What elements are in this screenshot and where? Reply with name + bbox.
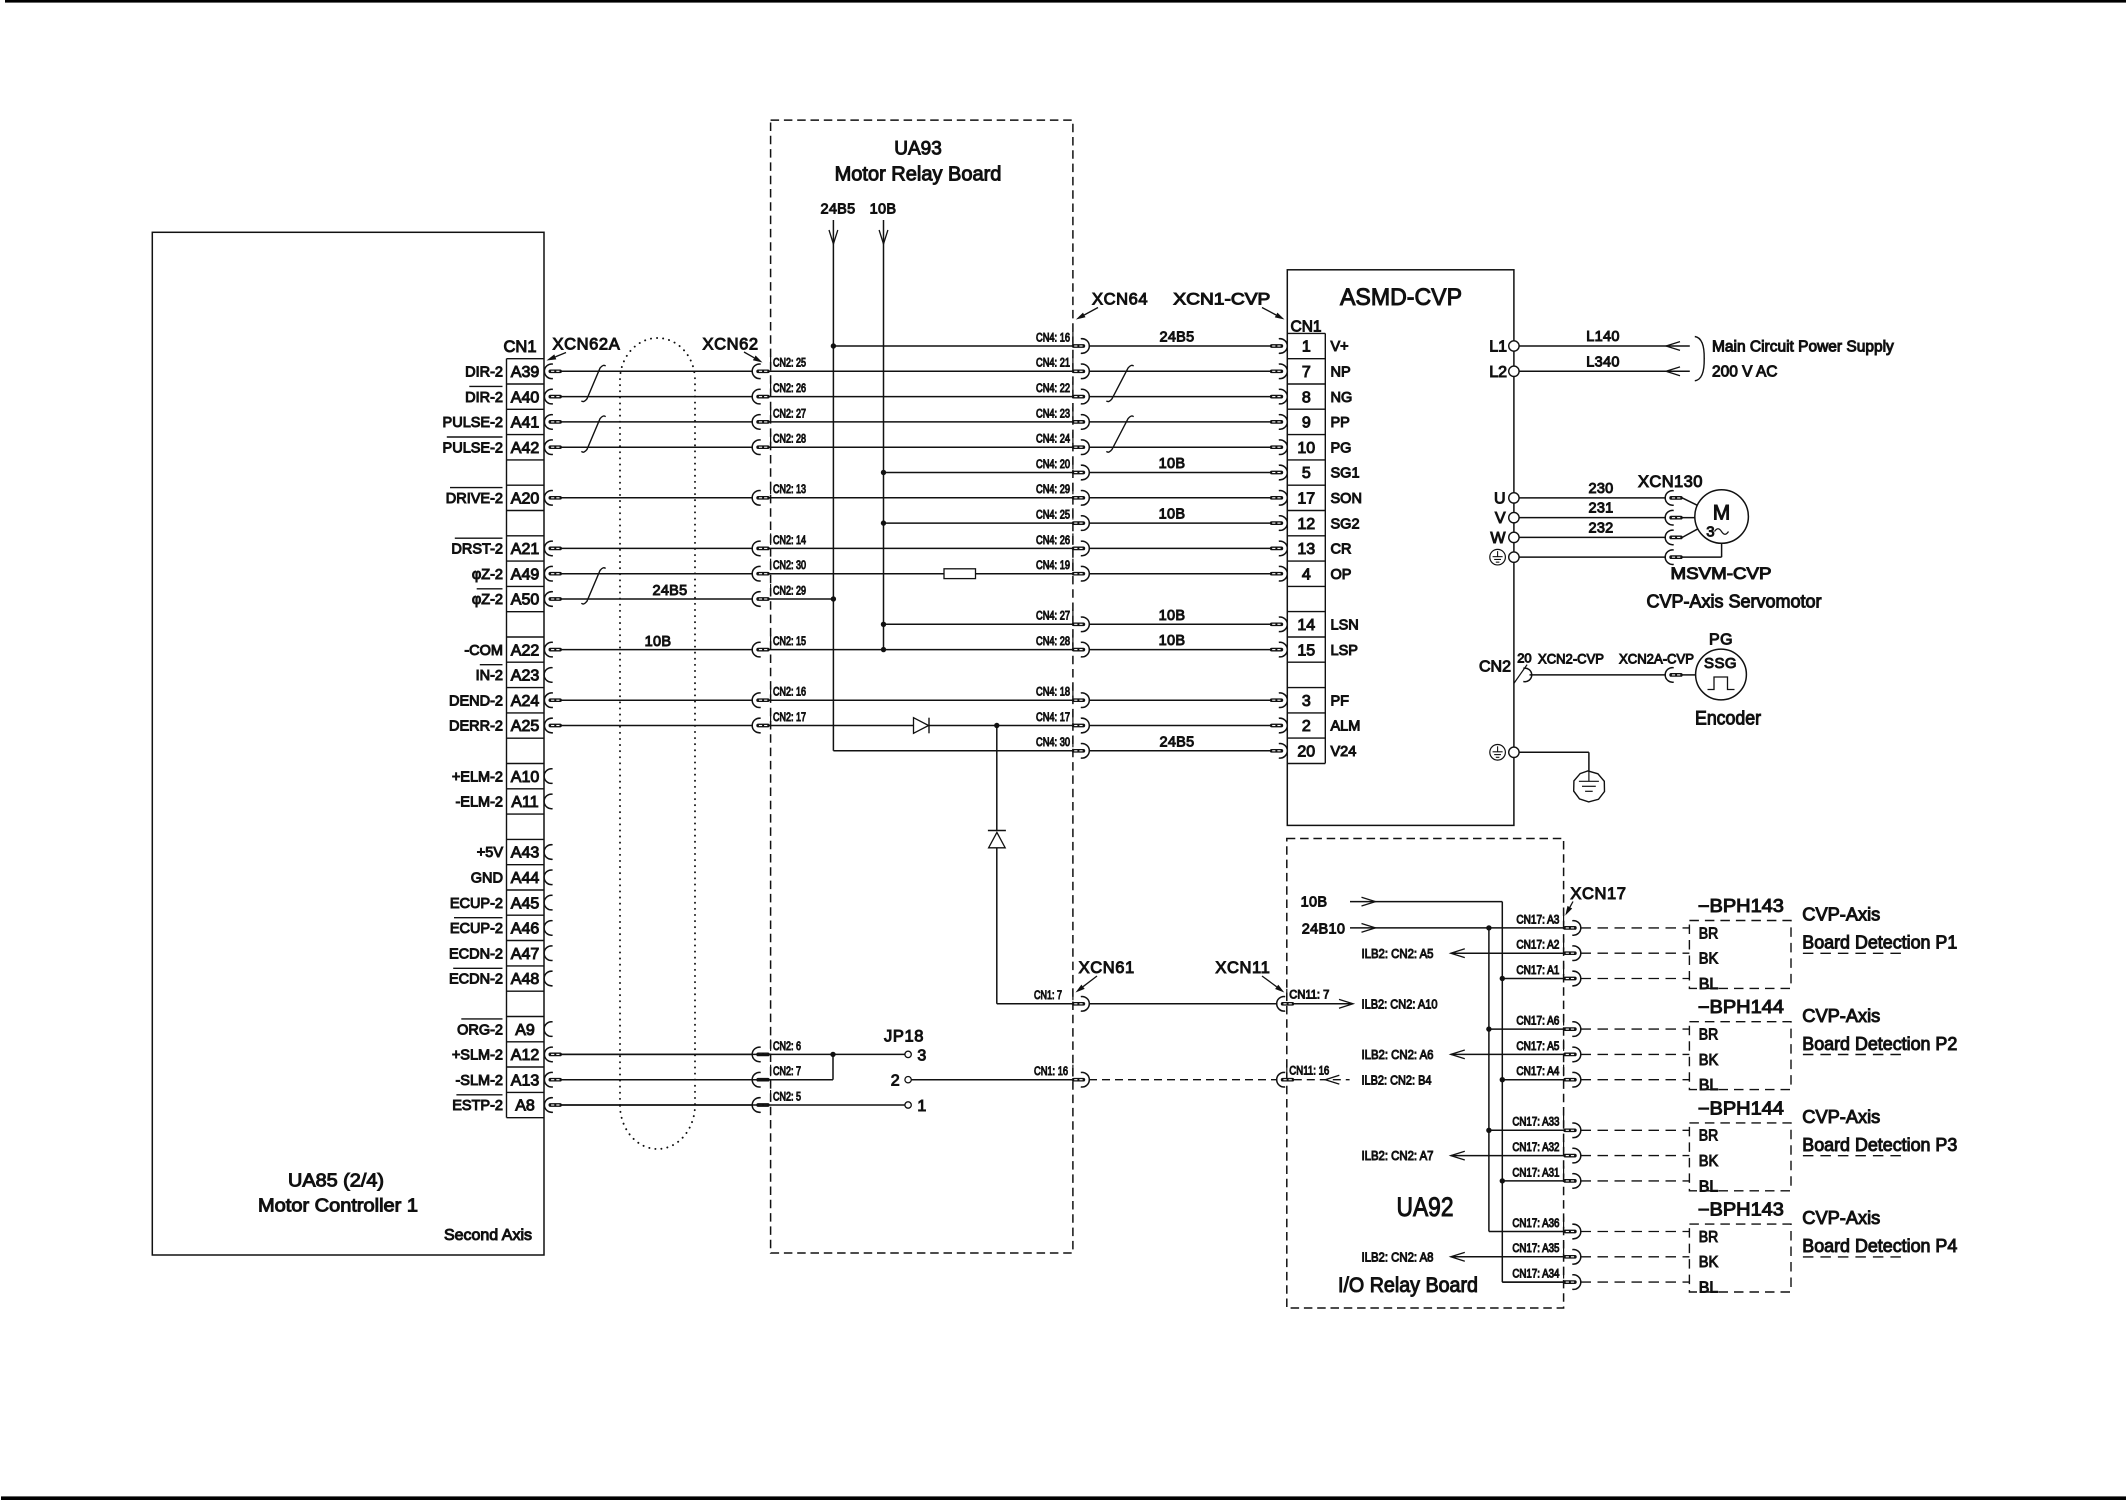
svg-text:2: 2 [1302,718,1311,735]
wire CN1:16 out (from JP18 pin 2) [911,1079,1072,1081]
svg-text:A40: A40 [511,389,540,406]
wire CN4: 24 to ASMD row 3 [1089,446,1270,448]
connector shell XCN62 CN2:16 [752,693,770,708]
svg-text:CN11: 16: CN11: 16 [1289,1065,1329,1077]
svg-text:LSP: LSP [1331,643,1358,659]
svg-text:PULSE-2: PULSE-2 [443,440,503,456]
CN2 20-way slash [1514,665,1527,684]
arrow XCN64 [1084,308,1098,316]
connector shell CN1:A10 [544,769,553,784]
svg-text:Second Axis: Second Axis [444,1227,532,1244]
svg-text:CVP-Axis: CVP-Axis [1802,905,1880,925]
svg-text:24B5: 24B5 [820,202,855,218]
label tick [1072,407,1074,419]
sensor board &#8722;BPH143 (P1) dashed box [1689,921,1791,989]
junction 10B/LSP [881,647,886,652]
connector shell CN1:A44 [544,870,553,885]
connector shell XCN17 A5 [1563,1047,1581,1062]
svg-text:XCN130: XCN130 [1638,473,1703,491]
svg-text:BR: BR [1699,925,1719,942]
svg-text:ESTP-2: ESTP-2 [452,1098,503,1114]
connector shell XCN17 A31 [1563,1174,1581,1189]
svg-text:A42: A42 [511,440,540,457]
label tick [1072,635,1074,647]
wire CN1:7 to CN11:7 [1089,1003,1277,1005]
svg-text:Encoder: Encoder [1695,709,1762,730]
connector shell XCN62 CN2:17 [752,718,770,733]
label tick [1072,736,1074,748]
svg-text:−BPH144: −BPH144 [1698,1098,1784,1118]
wire L340 [1519,370,1690,372]
svg-text:ILB2: CN2: A6: ILB2: CN2: A6 [1362,1047,1434,1062]
svg-text:XCN11: XCN11 [1215,959,1270,977]
connector shell XCN64 CN4: 16 [1072,339,1090,354]
svg-text:5: 5 [1302,465,1311,482]
wire W phase 232 [1519,536,1666,538]
svg-text:CN4: 28: CN4: 28 [1036,636,1070,648]
svg-text:17: 17 [1297,491,1315,508]
svg-text:CN2: 6: CN2: 6 [773,1041,801,1053]
earth ground electrode (circled) [1574,771,1605,802]
svg-text:V24: V24 [1331,744,1357,760]
svg-text:CN2: 15: CN2: 15 [773,636,806,648]
svg-text:I/O Relay Board: I/O Relay Board [1338,1274,1478,1297]
svg-text:1: 1 [917,1098,926,1115]
label tick [1072,609,1074,621]
label tick [1072,685,1074,697]
connector shell XCN62 CN2:30 [752,566,770,581]
10B bus elbow wire to A34 [1502,1281,1564,1283]
twisted-pair mark rows 2/3 [581,416,605,452]
net 10B feed arrow [883,220,885,244]
wire V phase 231 [1519,517,1666,519]
connector shell CN1:A25 [544,718,562,733]
connector shell CN1:A48 [544,971,553,986]
terminal PE (drive output) [1509,552,1519,562]
svg-text:φZ-2: φZ-2 [472,567,503,583]
junction 10B/A1 [1500,976,1505,981]
wire CN4: 24 row 3 [769,446,1072,448]
svg-text:CN17: A35: CN17: A35 [1512,1243,1559,1255]
connector shell XCN62 CN2:13 [752,491,770,506]
continuation dash under P1 text [1803,952,1905,954]
connector shell CN1:16 [1072,1072,1090,1087]
wire U into motor [1682,498,1701,507]
label tick [770,407,772,419]
junction 24B10/A6 [1486,1026,1491,1031]
svg-text:A20: A20 [511,491,540,508]
svg-text:XCN17: XCN17 [1570,885,1626,903]
label tick [770,685,772,697]
connector shell XCN17 A3 [1563,921,1581,936]
connector shell CN1:A40 [544,389,562,404]
svg-text:ILB2: CN2: A8: ILB2: CN2: A8 [1362,1249,1434,1264]
svg-text:BK: BK [1699,1254,1719,1271]
diode D2 (vertical, cathode up) [988,830,1006,832]
wire CN1:A13 to XCN62 CN2:7 [562,1079,754,1081]
svg-text:CN2: 16: CN2: 16 [773,687,806,699]
connector shell XCN62 CN2:15 [752,642,770,657]
svg-text:NP: NP [1331,365,1351,381]
wire CN4: 29 to ASMD row 5 [1089,497,1270,499]
svg-text:BL: BL [1699,1077,1719,1094]
net 24B5 vertical bus [832,244,834,751]
svg-text:A49: A49 [511,566,540,583]
svg-text:Board Detection P2: Board Detection P2 [1802,1034,1957,1054]
connector shell CN1:A20 [544,491,562,506]
board UA92 I/O Relay Board (dashed) [1287,839,1564,1309]
svg-text:CN4: 17: CN4: 17 [1036,712,1070,724]
svg-text:A25: A25 [511,718,540,735]
wire CN17:A4 from 10B bus [1502,1079,1564,1081]
PE ground symbol (chassis) [1490,745,1506,761]
board UA93 Motor Relay Board (dashed) [771,120,1073,1253]
harness wire A4 (dashed) [1581,1079,1690,1081]
svg-text:PG: PG [1331,440,1352,456]
wire CN17:A31 from 10B bus [1502,1180,1564,1182]
overbar PULSE-2 [447,436,503,438]
connector shell XCN64 CN4: 19 [1072,566,1090,581]
overbar ORG-2 [461,1018,502,1020]
svg-text:−BPH143: −BPH143 [1698,1200,1784,1220]
connector shell XCN130 [1665,510,1683,525]
harness wire A3 (dashed) [1581,927,1690,929]
svg-text:CN4: 22: CN4: 22 [1036,383,1070,395]
svg-text:CN4: 20: CN4: 20 [1036,459,1070,471]
connector shell XCN1-CVP row 2 [1270,415,1288,430]
arrow XCN1-CVP [1262,308,1276,316]
svg-text:Motor Relay Board: Motor Relay Board [835,164,1002,186]
label tick [1072,508,1074,519]
harness wire A36 (dashed) [1581,1231,1690,1233]
arrow XCN17 [1570,902,1573,908]
connector shell XCN64 CN4: 22 [1072,389,1090,404]
connector shell XCN62 CN2:27 [752,415,770,430]
svg-text:8: 8 [1302,389,1311,406]
connector shell CN1:A24 [544,693,562,708]
continuation dash under P4 text [1803,1256,1905,1258]
svg-text:A10: A10 [511,769,540,786]
JP18 pin 3 terminal [905,1051,911,1057]
connector shell CN1:A22 [544,642,562,657]
wire to earth ground [1519,751,1589,753]
harness wire A35 (dashed) [1581,1256,1690,1258]
wire CN4: 17 to ASMD row 14 [1089,725,1270,727]
label tick [1072,711,1074,723]
sensor board &#8722;BPH144 (P2) dashed box [1689,1022,1791,1090]
svg-text:CN1: 16: CN1: 16 [1034,1066,1068,1078]
svg-text:CN4: 30: CN4: 30 [1036,737,1070,749]
wire A50 (CN2:29) to 24B5 bus [769,598,833,600]
svg-text:BL: BL [1699,1178,1719,1195]
svg-text:10B: 10B [645,634,672,650]
svg-text:A22: A22 [511,642,540,659]
svg-text:L1: L1 [1489,339,1507,356]
svg-text:1: 1 [1302,339,1311,356]
harness wire A31 (dashed) [1581,1180,1690,1182]
svg-text:A46: A46 [511,921,540,938]
svg-text:-COM: -COM [464,643,503,659]
svg-text:CN17: A1: CN17: A1 [1516,965,1559,977]
svg-text:JP18: JP18 [884,1028,924,1046]
connector shell XCN64 CN4: 25 [1072,516,1090,531]
label tick [770,635,772,647]
connector shell CN1:A43 [544,845,553,860]
connector shell XCN64 CN4: 21 [1072,364,1090,379]
svg-text:DRST-2: DRST-2 [451,542,503,558]
wire CN4: 29 row 5 [769,497,1072,499]
terminal PE (chassis) [1509,747,1519,757]
junction A12/A13 tie [830,1052,835,1057]
resistor R (OP line) [944,569,976,579]
svg-text:12: 12 [1297,516,1315,533]
label tick [1072,559,1074,571]
cable bundle (dotted oval) [620,338,695,1149]
svg-text:CN2: 28: CN2: 28 [773,434,806,446]
twisted-pair mark PP/PG [1106,416,1133,452]
svg-text:CN2: 30: CN2: 30 [773,560,806,572]
svg-text:10: 10 [1297,440,1315,457]
sensor board &#8722;BPH144 (P3) dashed box [1689,1123,1791,1191]
svg-text:XCN64: XCN64 [1092,291,1148,309]
harness wire A32 (dashed) [1581,1155,1690,1157]
svg-text:W: W [1490,530,1506,547]
motor M (CVP-axis servomotor) [1695,490,1749,544]
connector shell XCN2A-CVP [1665,668,1683,683]
wire CN4: 16 to ASMD row -1 [1089,345,1270,347]
svg-text:CN2: CN2 [1479,659,1511,676]
svg-text:A43: A43 [511,845,540,862]
svg-text:-SLM-2: -SLM-2 [455,1073,503,1089]
arrow XCN62 [744,352,754,358]
board ASMD-CVP servo drive outline [1287,270,1514,826]
wire CN17:A6 from 24B10 bus [1489,1028,1564,1030]
svg-text:CN17: A32: CN17: A32 [1512,1142,1559,1154]
svg-text:CN17: A2: CN17: A2 [1516,940,1559,952]
wire CN17:A1 from 10B bus [1502,978,1564,980]
connector shell XCN1-CVP row 8 [1270,566,1288,581]
junction 10B/A4 [1500,1077,1505,1082]
connector shell XCN17 A33 [1563,1123,1581,1138]
wire CN4: 22 to ASMD row 1 [1089,396,1270,398]
wire CN4: 20 row 4 [884,472,1073,474]
connector shell XCN1-CVP row 15 [1270,744,1288,759]
connector shell XCN64 CN4: 18 [1072,693,1090,708]
label tick [770,711,772,723]
junction 24B5/A50 [831,596,836,601]
overbar φZ-2 [477,588,503,590]
svg-text:A48: A48 [511,971,540,988]
junction 10B/SG1 [881,470,886,475]
svg-text:U: U [1494,490,1506,507]
connector shell XCN130 [1665,550,1683,565]
svg-text:10B: 10B [1159,633,1186,649]
svg-text:A21: A21 [511,541,540,558]
overbar IN-2 [480,664,503,666]
svg-text:20: 20 [1517,651,1531,666]
svg-text:NG: NG [1331,390,1353,406]
connector shell XCN64 CN4: 20 [1072,465,1090,480]
connector shell XCN1-CVP row 6 [1270,516,1288,531]
wire CN17:A5 to ILB2 [1451,1053,1564,1055]
wire CN4: 30 row 15 [833,750,1072,752]
svg-text:BK: BK [1699,1153,1719,1170]
connector shell XCN64 CN4: 26 [1072,541,1090,556]
overbar DRST-2 [455,537,503,539]
label tick [1072,533,1074,545]
svg-text:BR: BR [1699,1128,1719,1145]
svg-text:7: 7 [1302,364,1311,381]
svg-text:A44: A44 [511,870,540,887]
svg-text:ILB2: CN2: A5: ILB2: CN2: A5 [1362,946,1434,961]
wire A8 to JP18 pin 1 [562,1104,905,1106]
net 24B5 feed arrow [832,220,834,244]
svg-text:CN1: 7: CN1: 7 [1034,990,1062,1002]
svg-text:BL: BL [1699,976,1719,993]
wire CN1:A25 to XCN62 CN2:17 [562,725,754,727]
connector CN1 (ASMD) pin cell column [1287,333,1325,763]
svg-text:SSG: SSG [1704,655,1737,672]
svg-text:CN4: 19: CN4: 19 [1036,560,1070,572]
connector shell XCN17 A6 [1563,1022,1581,1037]
wire CN11:16 to ILB2 (dashed) [1294,1079,1350,1081]
wire CN17:A35 to ILB2 [1451,1256,1564,1258]
svg-text:-ELM-2: -ELM-2 [455,795,503,811]
svg-text:CVP-Axis: CVP-Axis [1802,1107,1880,1127]
overbar ESTP-2 [456,1094,502,1096]
wire CN1:A42 to XCN62 CN2:28 [562,446,754,448]
svg-text:CN17: A36: CN17: A36 [1512,1218,1559,1230]
connector shell CN1:A45 [544,895,553,910]
connector shell XCN1-CVP row 5 [1270,491,1288,506]
svg-text:BR: BR [1699,1027,1719,1044]
svg-text:CN2: 27: CN2: 27 [773,408,806,420]
svg-text:V+: V+ [1331,339,1349,355]
connector shell CN1:A8 [544,1098,562,1113]
svg-text:+5V: +5V [477,845,504,861]
wire CN1:7 out [997,1003,1073,1005]
connector shell XCN17 A35 [1563,1250,1581,1265]
svg-text:A39: A39 [511,364,540,381]
connector shell XCN64 CN4: 30 [1072,744,1090,759]
connector shell CN1:A13 [544,1072,562,1087]
svg-text:230: 230 [1588,481,1613,497]
junction 24B10/A3 [1486,925,1491,930]
svg-text:V: V [1495,510,1506,527]
wire CN4: 17 row 14 [769,725,913,727]
svg-text:DRIVE-2: DRIVE-2 [446,491,503,507]
connector shell XCN62 CN2:5 [752,1098,770,1113]
svg-text:CN4: 23: CN4: 23 [1036,408,1070,420]
connector shell XCN62 CN2:25 [752,364,770,379]
arrow XCN61 [1083,976,1097,987]
svg-text:A50: A50 [511,592,540,609]
wire CN1:A41 to XCN62 CN2:27 [562,421,754,423]
wire A12 to JP18 pin 3 [562,1053,905,1055]
svg-text:CVP-Axis Servomotor: CVP-Axis Servomotor [1646,592,1821,612]
svg-text:CN17: A34: CN17: A34 [1512,1269,1560,1281]
svg-text:Board Detection P3: Board Detection P3 [1802,1135,1957,1155]
net 10B vertical bus [883,244,885,650]
svg-text:CN4: 18: CN4: 18 [1036,687,1070,699]
svg-text:CN4: 29: CN4: 29 [1036,484,1070,496]
connector shell XCN1-CVP row 0 [1270,364,1288,379]
svg-text:CR: CR [1331,542,1352,558]
twisted-pair mark rows 8/9 [581,568,605,604]
svg-text:10B: 10B [1159,608,1186,624]
svg-text:24B10: 24B10 [1302,922,1345,938]
connector shell XCN11 CN11:7 [1277,997,1295,1012]
wire CN17:A36 from 24B10 bus [1489,1231,1564,1233]
svg-text:M: M [1713,502,1731,525]
svg-text:CN2: 14: CN2: 14 [773,535,806,547]
svg-text:MSVM-CVP: MSVM-CVP [1671,565,1772,583]
svg-text:CN17: A4: CN17: A4 [1516,1066,1560,1078]
wire CN4: 27 row 10 [884,623,1073,625]
svg-text:24B5: 24B5 [1159,330,1194,346]
junction 24B5/CN4:16 [831,343,836,348]
svg-text:15: 15 [1297,642,1315,659]
connector shell XCN1-CVP row 7 [1270,541,1288,556]
sensor board &#8722;BPH143 (P4) dashed box [1689,1224,1791,1292]
connector shell CN1:A50 [544,592,562,607]
twisted-pair mark rows 0/1 [581,365,605,401]
connector shell XCN17 A4 [1563,1072,1581,1087]
svg-text:Motor Controller 1: Motor Controller 1 [258,1195,418,1216]
connector shell XCN17 A2 [1563,946,1581,961]
harness wire A33 (dashed) [1581,1129,1690,1131]
label tick [1072,432,1074,444]
svg-text:A9: A9 [515,1022,535,1039]
diode D1 (ALM line) [914,718,929,734]
svg-text:10B: 10B [1159,456,1186,472]
top page border bar [5,0,2126,3]
wire CN17:A34 from 10B bus [1502,1281,1564,1283]
wire CN1:16 to CN11:16 (dashed) [1089,1079,1277,1081]
wire CN1:A24 to XCN62 CN2:16 [562,699,754,701]
connector shell XCN17 A34 [1563,1275,1581,1290]
board UA85 Motor Controller 1 outline [152,232,544,1255]
wire W into motor [1682,527,1701,537]
svg-text:ECDN-2: ECDN-2 [449,972,503,988]
connector shell XCN62 CN2:6 [752,1047,770,1062]
wire CN11:7 to ILB2 [1294,1003,1353,1005]
connector shell CN1:A46 [544,921,553,936]
net 24B10 vertical bus [1488,928,1490,1232]
wire CN4: 25 row 6 [884,522,1073,524]
svg-text:CN4: 26: CN4: 26 [1036,535,1070,547]
junction 10B/SG2 [881,520,886,525]
svg-text:XCN1-CVP: XCN1-CVP [1173,291,1270,309]
twisted-pair mark NP/NG [1106,365,1133,401]
svg-text:φZ-2: φZ-2 [472,592,503,608]
svg-text:14: 14 [1297,617,1315,634]
wire CN1:A49 to XCN62 CN2:30 [562,573,754,575]
wire CN4: 27 to ASMD row 10 [1089,623,1270,625]
connector shell XCN64 CN4: 28 [1072,642,1090,657]
connector shell XCN1-CVP row 13 [1270,693,1288,708]
svg-text:PG: PG [1709,632,1733,649]
net 10B vertical bus (UA92) [1501,902,1503,1282]
JP18 pin 1 terminal [905,1102,911,1108]
svg-text:200 V AC: 200 V AC [1712,363,1778,380]
svg-text:CN2: 17: CN2: 17 [773,712,806,724]
wire CN4: 20 to ASMD row 4 [1089,472,1270,474]
connector shell XCN61 CN1:7 [1072,997,1090,1012]
svg-text:DERR-2: DERR-2 [449,719,503,735]
svg-text:SON: SON [1331,491,1362,507]
svg-text:ECUP-2: ECUP-2 [450,921,503,937]
